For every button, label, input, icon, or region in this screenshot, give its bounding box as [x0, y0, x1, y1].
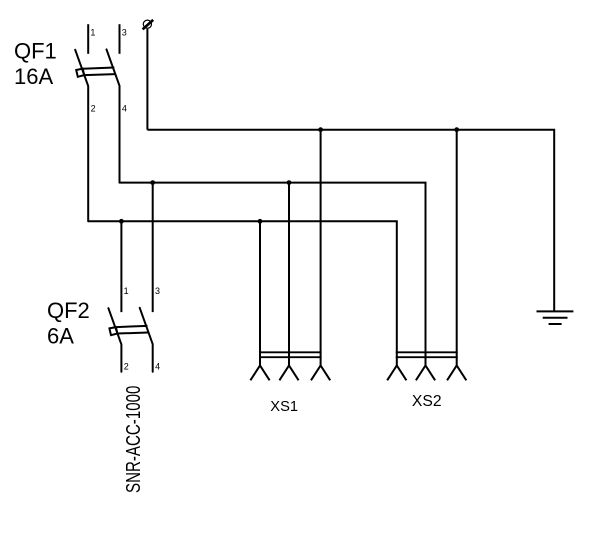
svg-text:1: 1 [124, 286, 129, 296]
svg-text:4: 4 [122, 103, 127, 113]
svg-text:16A: 16A [14, 64, 53, 89]
svg-text:4: 4 [155, 362, 160, 372]
svg-text:XS2: XS2 [412, 393, 442, 410]
svg-text:2: 2 [91, 103, 96, 113]
svg-text:SNR-ACC-1000: SNR-ACC-1000 [122, 385, 145, 493]
svg-text:3: 3 [122, 28, 127, 38]
svg-text:3: 3 [155, 286, 160, 296]
svg-text:6A: 6A [47, 324, 74, 349]
svg-text:XS1: XS1 [270, 399, 298, 415]
svg-text:2: 2 [124, 362, 129, 372]
svg-text:1: 1 [90, 28, 95, 38]
svg-text:QF2: QF2 [47, 298, 90, 323]
svg-text:QF1: QF1 [14, 39, 57, 64]
